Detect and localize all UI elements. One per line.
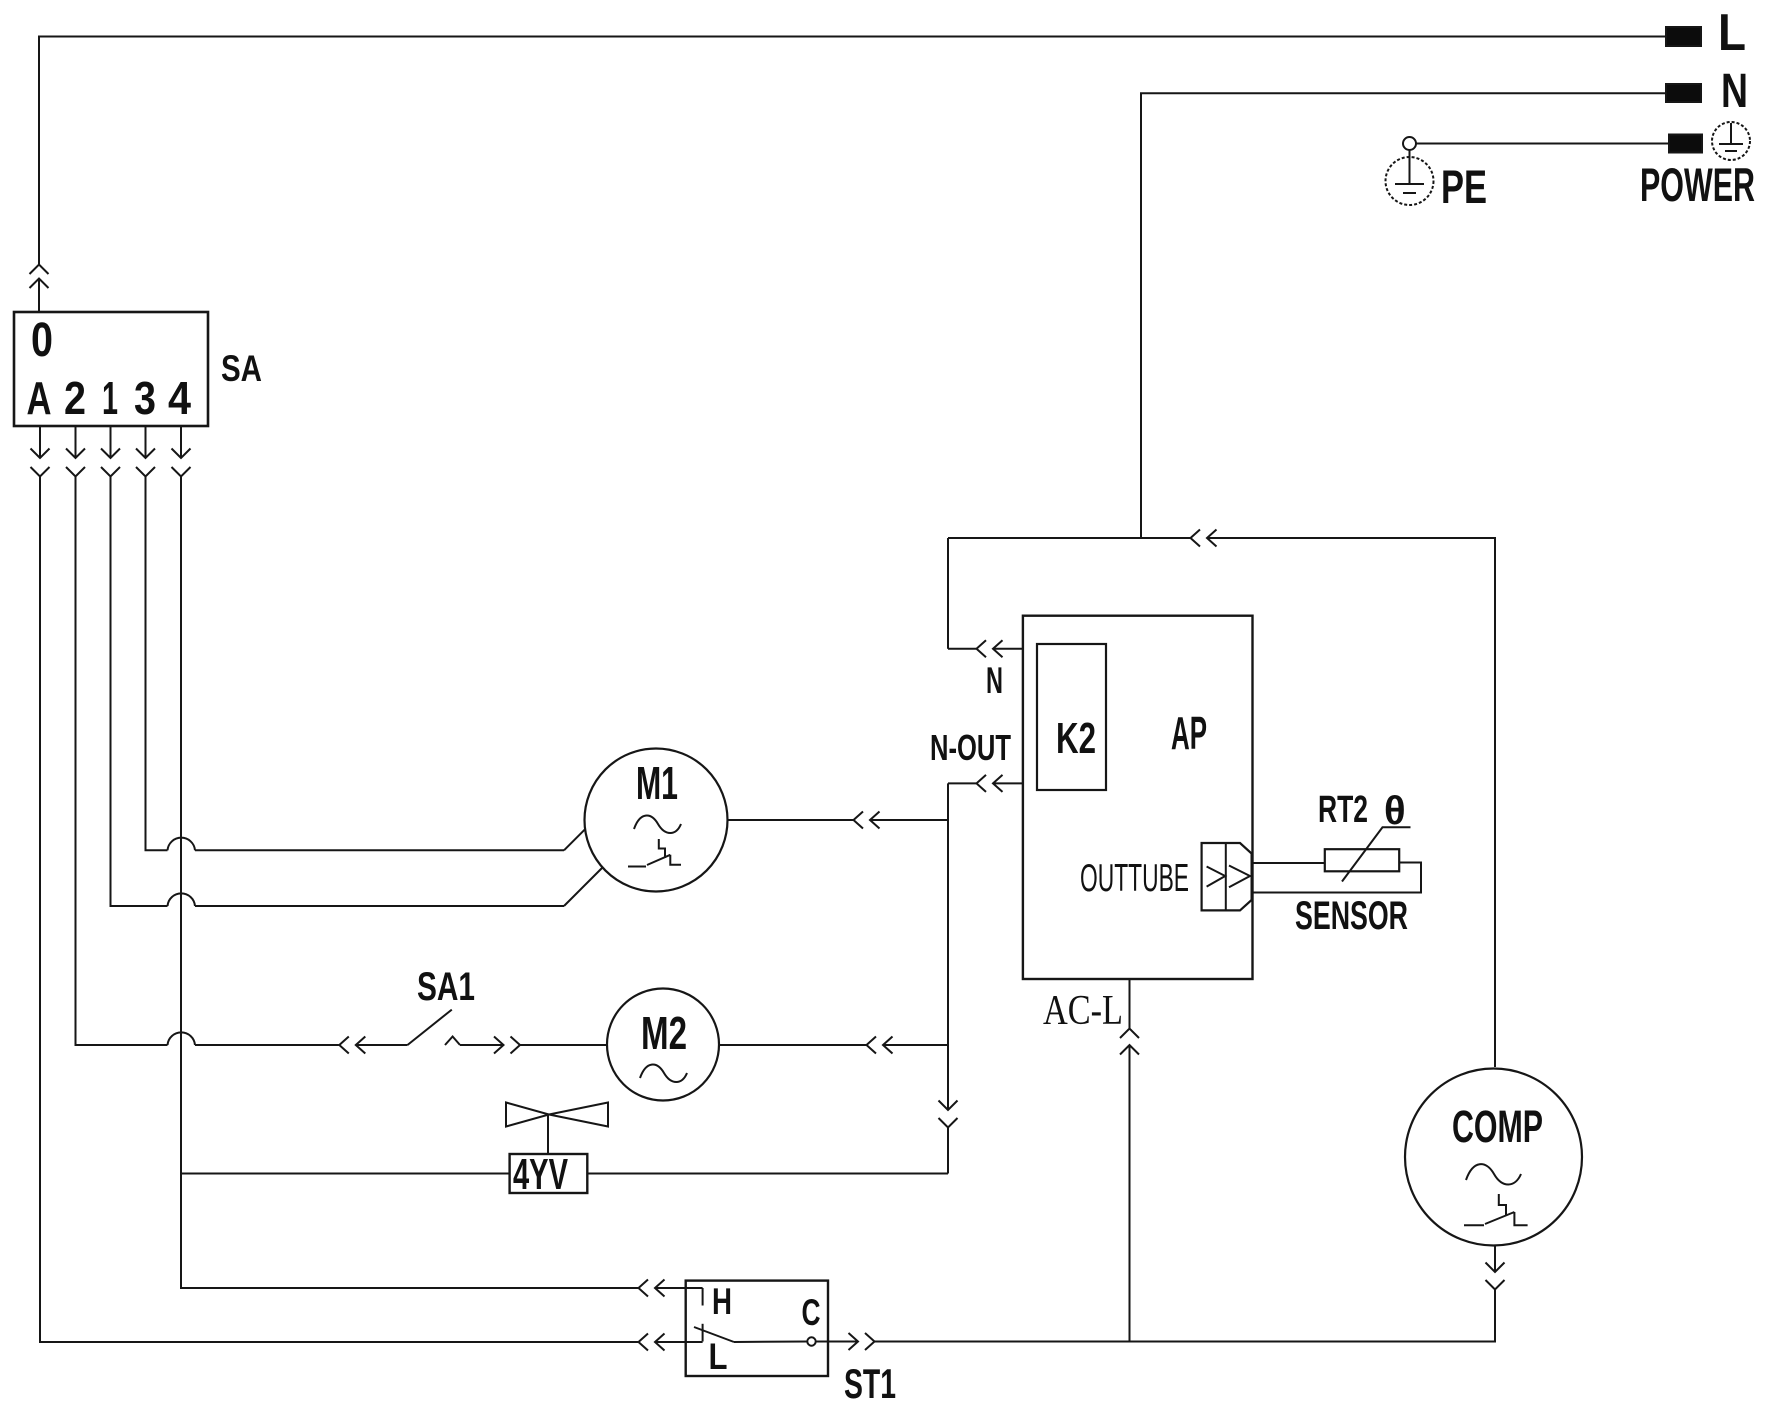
wire AC-L from AP to bottom bus xyxy=(1120,979,1139,1342)
wire N-OUT pin to AP xyxy=(948,775,1023,792)
svg-text:ST1: ST1 xyxy=(844,1360,896,1407)
svg-text:K2: K2 xyxy=(1056,714,1096,763)
label OUTTUBE xyxy=(1080,857,1189,900)
wire hop M1 lower over terminal-4 wire xyxy=(168,868,603,907)
wire hop M1 upper over terminal-4 wire xyxy=(168,829,586,850)
svg-text:M2: M2 xyxy=(641,1007,687,1059)
svg-text:POWER: POWER xyxy=(1640,158,1755,211)
compressor COMP xyxy=(1405,1069,1582,1246)
svg-text:AP: AP xyxy=(1171,707,1207,759)
thermistor RT2 xyxy=(1325,827,1411,881)
connector chevrons SA1 to M2 xyxy=(494,1037,607,1054)
svg-text:4YV: 4YV xyxy=(513,1150,568,1199)
svg-text:M1: M1 xyxy=(636,757,678,809)
wire M2 to N-OUT bus with connector xyxy=(719,1037,948,1054)
wire N bus xyxy=(1141,93,1666,538)
connector chevrons on L wire xyxy=(639,1334,703,1351)
coil 4YV xyxy=(510,1150,588,1199)
terminal block L xyxy=(1666,4,1746,62)
label SA1 xyxy=(417,965,475,1009)
svg-text:0: 0 xyxy=(31,314,53,367)
wire M1 to N-OUT bus with connector xyxy=(728,812,949,829)
svg-text:A: A xyxy=(27,372,52,424)
wire COMP bottom with connector xyxy=(1130,1246,1505,1342)
SA terminal 2 wire down xyxy=(66,426,168,1045)
svg-text:N: N xyxy=(986,660,1003,701)
sensor leads xyxy=(1252,863,1421,893)
label POWER xyxy=(1640,158,1755,211)
label N pin xyxy=(986,660,1003,701)
selector switch SA box xyxy=(14,312,208,426)
solenoid valve symbol above 4YV xyxy=(506,1103,608,1155)
controller AP box xyxy=(1023,616,1253,979)
wire L bus top xyxy=(39,37,1666,265)
svg-text:PE: PE xyxy=(1441,160,1487,213)
earth symbol at POWER xyxy=(1712,122,1750,160)
label ST1 xyxy=(844,1360,896,1407)
label SENSOR xyxy=(1295,894,1408,938)
svg-text:4: 4 xyxy=(168,372,191,424)
terminal block N xyxy=(1666,65,1748,118)
thermostat ST1 box xyxy=(686,1281,828,1376)
relay K2 xyxy=(1037,644,1106,790)
label PE xyxy=(1441,160,1487,213)
svg-text:L: L xyxy=(1718,4,1746,62)
SA terminal 4 wire down xyxy=(172,426,639,1288)
sensor connector on AP xyxy=(1202,843,1252,910)
connector chevrons after C xyxy=(828,1333,1130,1350)
svg-text:N: N xyxy=(1721,65,1748,118)
SA terminal A wire down xyxy=(31,426,639,1342)
switch SA1 xyxy=(408,1010,505,1045)
svg-text:2: 2 xyxy=(64,372,86,424)
svg-text:N-OUT: N-OUT xyxy=(930,727,1011,768)
wire SA1 branch with hop over terminal-4 wire xyxy=(168,1032,408,1053)
label AC-L xyxy=(1043,988,1123,1034)
ST1 contact H xyxy=(703,1281,732,1322)
label SA xyxy=(221,348,262,389)
svg-text:θ: θ xyxy=(1384,789,1406,833)
wire 4YV branch xyxy=(181,1173,948,1175)
connector chevrons on H wire xyxy=(639,1280,703,1297)
label RT2 theta xyxy=(1318,789,1406,833)
connector chevrons on SA input wire xyxy=(30,265,49,313)
N-OUT vertical bus xyxy=(939,783,958,1173)
ST1 contact L and blade xyxy=(694,1324,808,1377)
SA terminal 1 wire down xyxy=(101,426,168,906)
label N-OUT xyxy=(930,727,1011,768)
svg-text:SA: SA xyxy=(221,348,262,389)
svg-text:SENSOR: SENSOR xyxy=(1295,894,1408,938)
svg-text:3: 3 xyxy=(134,372,156,424)
fan motor M1 xyxy=(585,749,728,892)
svg-text:C: C xyxy=(802,1292,821,1333)
svg-text:SA1: SA1 xyxy=(417,965,475,1009)
svg-text:L: L xyxy=(709,1336,728,1377)
svg-text:AC-L: AC-L xyxy=(1043,988,1123,1034)
svg-text:1: 1 xyxy=(102,372,118,424)
svg-text:H: H xyxy=(712,1281,732,1322)
svg-text:COMP: COMP xyxy=(1452,1101,1543,1152)
terminal block PE xyxy=(1416,135,1702,153)
SA terminal 3 wire down xyxy=(136,426,168,850)
earth symbol PE xyxy=(1386,137,1434,205)
wire top feed to COMP xyxy=(948,530,1495,1068)
svg-text:OUTTUBE: OUTTUBE xyxy=(1080,857,1189,900)
ST1 contact C xyxy=(802,1292,829,1346)
louver motor M2 xyxy=(607,989,719,1101)
wire N pin to AP xyxy=(948,538,1023,657)
svg-text:RT2: RT2 xyxy=(1318,789,1368,831)
